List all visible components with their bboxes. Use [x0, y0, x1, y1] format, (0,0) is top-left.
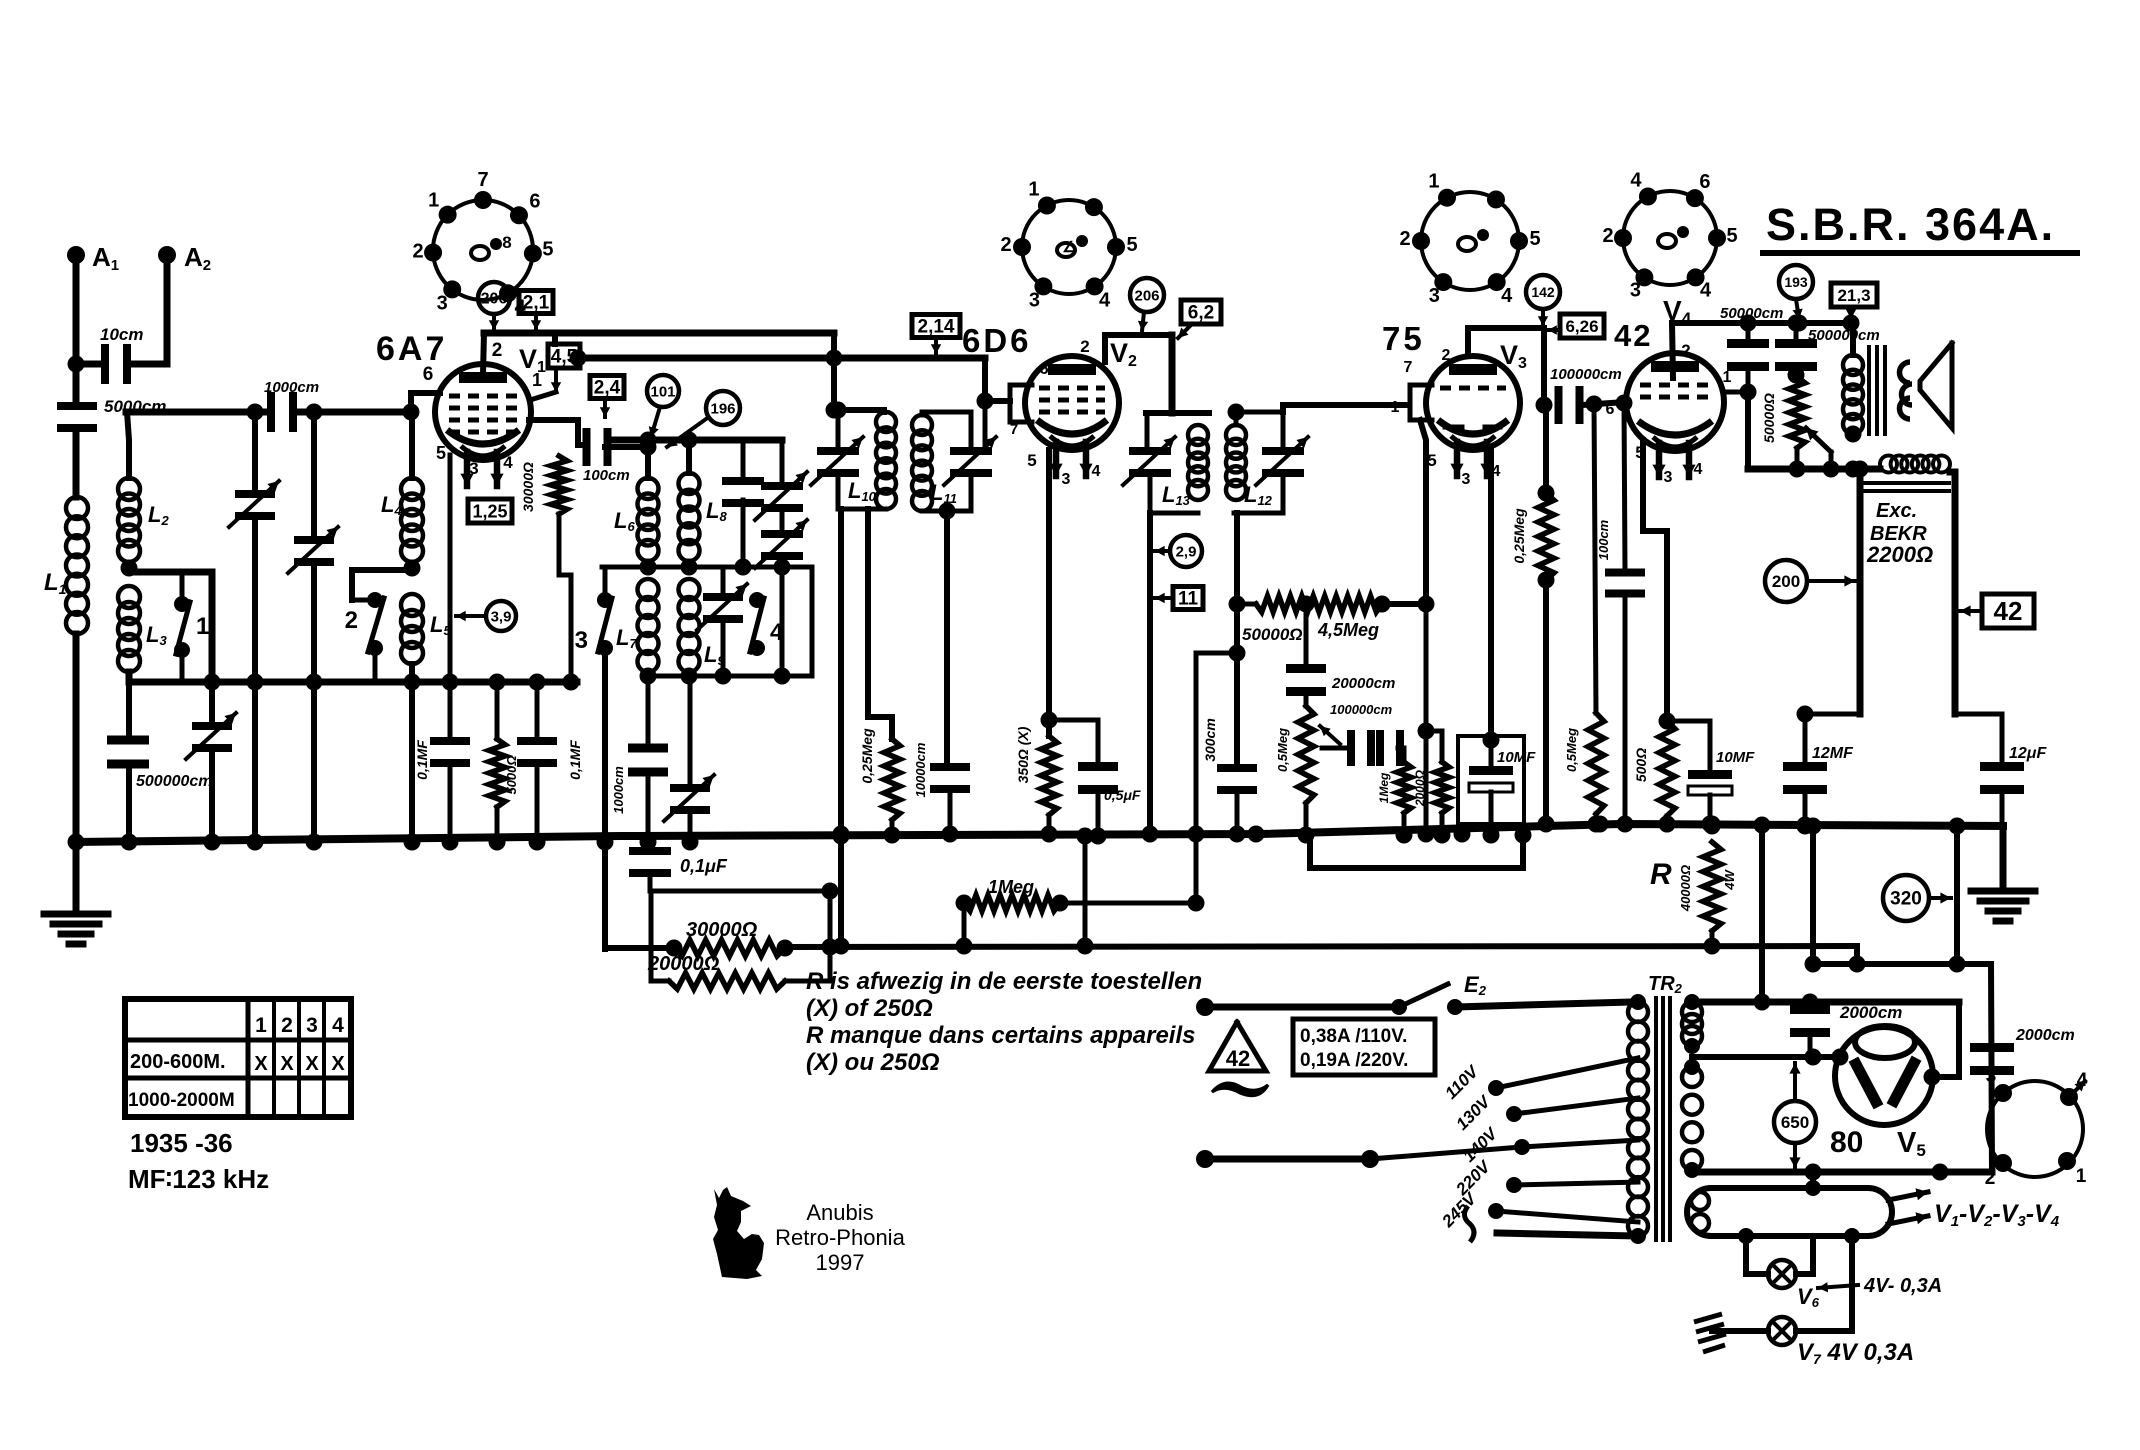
svg-text:75: 75: [1382, 320, 1425, 357]
svg-text:1: 1: [255, 1014, 267, 1037]
wire L3 bottom row: [129, 672, 577, 682]
svg-text:2000cm: 2000cm: [1839, 1003, 1902, 1022]
V2 plate drop to IF2: [1169, 335, 1176, 413]
trimmer capacitor ant 1: [186, 682, 236, 842]
ground symbol right: [1971, 891, 2035, 921]
svg-text:Retro-Phonia: Retro-Phonia: [775, 1225, 905, 1250]
capacitor 2000cm 2: [1970, 964, 2075, 1172]
coil L13: [1162, 425, 1208, 508]
trimmer capacitor tuning 1: [229, 412, 279, 842]
svg-text:5: 5: [436, 443, 446, 463]
wire to 10cm capacitor: [76, 361, 104, 368]
trimmer capacitor IF2 right: [1256, 412, 1308, 513]
V4 pin2 riser: [1672, 323, 1691, 378]
svg-text:100000cm: 100000cm: [1550, 366, 1622, 383]
svg-text:100cm: 100cm: [1596, 519, 1611, 560]
capacitor 0,5mf V2: [1041, 712, 1141, 845]
svg-text:0,25Meg: 0,25Meg: [859, 728, 875, 784]
grid box V3: [1410, 385, 1432, 420]
band table frame: [125, 999, 351, 1117]
main ground bus: [76, 824, 2003, 842]
V3 diode plates: [1445, 425, 1500, 430]
svg-text:1: 1: [1723, 369, 1732, 386]
osc fixed capacitor: [722, 440, 764, 567]
IF1 drop right capacitor 10000cm: [913, 511, 970, 843]
svg-text:0,38A /110V.: 0,38A /110V.: [1300, 1026, 1407, 1047]
node 4,5Meg mid tap: [1298, 596, 1315, 613]
field coil right rail: [1950, 472, 1955, 714]
line y946 right end: [1849, 946, 1866, 973]
resistor 2000 cluster: [1413, 731, 1451, 844]
bottom pin arrows V1: [436, 443, 513, 478]
svg-text:30000Ω: 30000Ω: [520, 462, 536, 512]
transformer core: [1656, 998, 1670, 1240]
V2 grid wire: [985, 398, 1010, 404]
capacitor plate 42: [1727, 323, 1769, 401]
capacitor 0,1MF cath A: [414, 682, 470, 842]
coil L6: [614, 478, 659, 561]
svg-text:3: 3: [1986, 1066, 1997, 1087]
svg-text:4: 4: [770, 619, 784, 646]
resistor 1Meg cluster: [1377, 748, 1413, 844]
voltage circle 193: [1779, 265, 1813, 319]
svg-text:3,9: 3,9: [491, 608, 512, 625]
svg-text:6,2: 6,2: [1188, 303, 1214, 324]
svg-text:2: 2: [281, 1014, 293, 1037]
node A1-cap junction: [68, 356, 85, 373]
node bus tune2: [306, 674, 323, 851]
svg-text:193: 193: [1784, 274, 1808, 290]
node bus middle dots: [833, 816, 1814, 843]
HV top line: [1692, 994, 1959, 1011]
svg-text:3: 3: [306, 1014, 318, 1037]
osc top line: [614, 432, 782, 449]
capacitor 10cm: [100, 325, 143, 384]
svg-text:5: 5: [1027, 451, 1036, 470]
voltage box 2,4: [590, 376, 624, 418]
svg-text:1000cm: 1000cm: [264, 379, 319, 396]
title SBR 364A: [1763, 199, 2077, 253]
primary bottom wire: [1497, 1228, 1646, 1244]
note line 1: [806, 968, 1202, 995]
table row 1000-2000M: [128, 1090, 235, 1111]
voltage taps: [1488, 1058, 1638, 1222]
svg-text:X: X: [280, 1053, 294, 1075]
svg-text:200-600M.: 200-600M.: [130, 1051, 226, 1073]
B+ line y1172: [1692, 1164, 1992, 1181]
antenna terminal A1: [67, 242, 119, 274]
label 500000cm: [1808, 327, 1880, 344]
svg-text:6: 6: [529, 190, 540, 212]
voltage circle 142: [1526, 275, 1560, 326]
riser 1957: [1949, 818, 1966, 973]
label EXC: [1876, 500, 1917, 522]
resistor 5000ohm: [489, 682, 519, 842]
capacitor 12MF 2: [1980, 714, 2047, 826]
voltage box 6,26: [1548, 314, 1604, 338]
svg-text:2: 2: [1985, 1168, 1996, 1189]
svg-text:6: 6: [1606, 401, 1615, 418]
svg-text:0,5μF: 0,5μF: [1104, 787, 1141, 803]
svg-text:2: 2: [1681, 341, 1690, 360]
IF1 right rail: [977, 358, 994, 448]
rectifier socket 4pin: [1985, 1066, 2088, 1189]
svg-text:5: 5: [542, 238, 553, 260]
node bus-A1: [68, 834, 85, 851]
grid line to V3: [1283, 405, 1409, 412]
cathode resistor V1 30000ohm: [520, 456, 571, 682]
coil L9: [679, 579, 726, 672]
speaker horn: [1920, 343, 1952, 428]
heater winding pill: [1687, 1188, 1892, 1236]
svg-text:80: 80: [1830, 1126, 1863, 1159]
resistor 1Meg AVC line: [956, 877, 1197, 912]
B+ top line 6A7: [484, 330, 834, 337]
svg-text:4W: 4W: [1722, 869, 1737, 891]
label V2: [1110, 338, 1137, 370]
label 2200ohm: [1866, 542, 1933, 567]
output transformer core: [1869, 347, 1885, 434]
label V5: [1897, 1127, 1926, 1160]
pin6 wire V1: [403, 364, 441, 421]
node screen-line drop: [570, 350, 587, 367]
wire bus to ground: [73, 842, 80, 914]
svg-text:0,1μF: 0,1μF: [680, 856, 728, 876]
capacitor 2000cm 1: [1790, 1002, 1902, 1057]
svg-text:R is afwezig in de eerste toes: R is afwezig in de eerste toestellen: [806, 968, 1202, 995]
ground symbol left: [44, 914, 108, 944]
capacitor 12MF 1: [1783, 714, 1854, 835]
voltage box 1,25: [468, 499, 512, 523]
svg-text:6A7: 6A7: [376, 330, 447, 368]
fuse rating box: [1293, 1019, 1435, 1075]
capacitor 10MF box: [1458, 736, 1524, 824]
heater pill top tap: [1805, 1164, 1822, 1197]
left rail 12MF junction: [1797, 706, 1861, 723]
label V7 4V 0,3A: [1797, 1339, 1914, 1367]
trimmer capacitor IF1 right: [944, 437, 996, 510]
bottom junction row: [640, 668, 813, 685]
warning triangle 42: [1209, 1022, 1266, 1071]
svg-text:10MF: 10MF: [1716, 749, 1755, 766]
tube socket diagram 6A7: [413, 169, 554, 318]
svg-text:0,25Meg: 0,25Meg: [1511, 508, 1527, 564]
lamp V6 wiring: [1746, 1236, 1768, 1274]
IF2 top line: [1146, 410, 1209, 416]
V4 cathode jog: [1643, 440, 1667, 721]
V4 pin labels: [1606, 401, 1703, 486]
label 6D6: [962, 322, 1032, 359]
svg-text:0,19A /220V.: 0,19A /220V.: [1300, 1050, 1408, 1071]
cluster cap row: [1320, 702, 1393, 748]
tap squiggle: [1464, 1206, 1474, 1242]
svg-text:4,5Meg: 4,5Meg: [1317, 620, 1379, 640]
voltage box 21,3: [1831, 283, 1877, 319]
V2 plate riser: [1105, 335, 1172, 362]
label 50000ohm: [1242, 625, 1303, 644]
label 6A7: [376, 330, 447, 368]
osc trimmer lower: [755, 520, 807, 676]
pin2 riser V1: [483, 333, 502, 374]
capacitor 100000cm pair: [1347, 730, 1404, 766]
label 100000cm coupling: [1550, 366, 1622, 383]
resistor 20000ohm: [647, 891, 830, 989]
warning squiggle: [1212, 1083, 1268, 1096]
svg-text:2: 2: [1442, 347, 1451, 364]
pilot lamp V7: [1768, 1317, 1796, 1345]
svg-text:6D6: 6D6: [962, 322, 1032, 359]
V3 grid drop: [1420, 420, 1426, 604]
coil L3: [118, 586, 167, 672]
svg-text:2: 2: [1602, 225, 1613, 247]
svg-text:1Meg.: 1Meg.: [988, 877, 1039, 897]
svg-text:100000cm: 100000cm: [1330, 702, 1393, 717]
capacitor 10MF cathode: [1659, 713, 1756, 833]
wire 100cm to L6: [605, 439, 657, 479]
voltage circle 650: [1774, 1063, 1816, 1168]
loop bottom: [1310, 827, 1532, 869]
svg-text:0,1MF: 0,1MF: [414, 740, 430, 780]
svg-text:42: 42: [1994, 596, 2023, 626]
svg-text:650: 650: [1781, 1113, 1809, 1132]
svg-text:142: 142: [1531, 284, 1555, 300]
svg-text:1: 1: [1028, 179, 1039, 201]
svg-text:40000Ω: 40000Ω: [1678, 865, 1693, 912]
voltage box 2,1: [519, 291, 553, 331]
tap fan: [1370, 1147, 1522, 1159]
wire L5 to bus: [404, 664, 421, 851]
table header 1234: [255, 1014, 344, 1037]
svg-text:2,1: 2,1: [523, 293, 550, 314]
svg-text:50000Ω: 50000Ω: [1761, 393, 1777, 443]
screen top line 42: [1672, 315, 1860, 332]
plate bottom line: [1748, 461, 1880, 478]
V3 cathode drop: [1483, 450, 1500, 749]
svg-text:4: 4: [1700, 279, 1712, 301]
voltage circle 196: [667, 391, 740, 447]
V4 grid capacitor 100cm: [1596, 403, 1645, 833]
coupling line to V4: [1582, 395, 1633, 413]
IF2 right bottom: [1234, 511, 1283, 516]
AVC drop from L12: [1229, 513, 1246, 765]
cross connect 1085: [1077, 828, 1094, 955]
HV secondary winding: [1682, 994, 1702, 1054]
note line 3: [806, 1022, 1195, 1049]
node L2-L3 junction: [121, 560, 138, 577]
wire cap to L1: [73, 429, 80, 497]
svg-text:4V- 0,3A: 4V- 0,3A: [1863, 1275, 1942, 1297]
heater pill bottom taps: [1738, 1228, 1860, 1244]
mid junction row: [602, 559, 812, 576]
svg-text:X: X: [254, 1053, 268, 1075]
anubis fox logo: [713, 1187, 764, 1279]
node bus osc: [640, 834, 699, 851]
node bus 6A7: [442, 834, 546, 851]
V4 grid leak 0,5Meg: [1564, 404, 1605, 833]
node L6-L7: [640, 559, 657, 576]
svg-text:7: 7: [1010, 421, 1018, 438]
IF1 top left line: [834, 410, 884, 412]
resistor 500ohm cathode: [1633, 721, 1676, 833]
svg-text:1: 1: [428, 190, 439, 212]
svg-text:3: 3: [1062, 471, 1071, 488]
IF1 top right line: [922, 412, 971, 448]
capacitor 20000cm: [1286, 604, 1395, 706]
resistor 50000ohm + 4,5Meg row: [1237, 596, 1435, 613]
pin1 riser V1 with 4,5 box: [530, 333, 580, 400]
wire cap to A2: [128, 255, 167, 364]
node W1 drop1: [247, 404, 264, 421]
AVC junction line: [1196, 645, 1246, 662]
svg-text:7: 7: [1404, 359, 1413, 376]
svg-text:(X) of 250Ω: (X) of 250Ω: [806, 995, 933, 1022]
svg-text:1,25: 1,25: [472, 501, 507, 521]
switch 2: [345, 592, 384, 656]
resistor 0,25Meg plate load: [1511, 405, 1555, 833]
svg-text:8: 8: [502, 233, 511, 252]
svg-text:10000cm: 10000cm: [913, 742, 928, 797]
svg-text:50000cm: 50000cm: [1720, 305, 1783, 322]
AVC line left drop: [956, 903, 973, 955]
svg-text:R manque dans certains apparei: R manque dans certains appareils: [806, 1022, 1195, 1049]
svg-text:2: 2: [492, 340, 503, 361]
grid2 wire V1: [529, 420, 586, 445]
voltage circle 39: [456, 601, 516, 631]
capacitor 1000cm series: [264, 379, 319, 432]
svg-text:2000cm: 2000cm: [2015, 1027, 2075, 1044]
svg-text:500Ω: 500Ω: [1633, 748, 1649, 782]
svg-text:4: 4: [1694, 461, 1703, 478]
rectifier tube 80 V5: [1835, 1026, 1933, 1125]
tube V3 75: [1426, 356, 1520, 476]
svg-text:6: 6: [1039, 359, 1048, 378]
node W1 drop2: [306, 404, 323, 421]
right rail 12MF junction: [1955, 712, 2002, 717]
node bus trim1: [204, 674, 221, 851]
node L8-L9: [681, 559, 698, 576]
note line 4: [806, 1049, 940, 1076]
label 1997: [816, 1250, 865, 1275]
voltage box 2,14: [912, 315, 960, 355]
svg-text:4: 4: [1492, 463, 1501, 480]
svg-text:2: 2: [1080, 337, 1089, 356]
svg-text:2: 2: [345, 607, 358, 634]
bus to ground right: [2000, 826, 2007, 891]
line y946: [605, 946, 1857, 948]
capacitor screen 42: [1775, 323, 1817, 384]
svg-text:1: 1: [1428, 171, 1439, 193]
feedback arrow: [1806, 428, 1831, 469]
label Retro-Phonia: [775, 1225, 905, 1250]
coil L4: [381, 412, 423, 562]
label BEKR: [1870, 523, 1927, 545]
switch 3 stubs: [603, 567, 608, 600]
IF2 drop left: [1142, 513, 1159, 843]
switch 3: [575, 592, 613, 656]
switch 2 stubs: [352, 600, 375, 682]
svg-text:2,4: 2,4: [594, 378, 621, 399]
V3 pin labels: [1391, 347, 1501, 488]
svg-text:2,14: 2,14: [918, 317, 955, 338]
IF2 left bottom: [1150, 511, 1198, 516]
filament line: [1692, 1049, 1849, 1068]
label 1935-36: [130, 1128, 233, 1158]
antenna terminal A2: [158, 242, 211, 274]
voltage circle 200: [1765, 560, 1855, 602]
label 42: [1614, 318, 1652, 353]
svg-text:12MF: 12MF: [1812, 745, 1854, 762]
svg-text:3: 3: [1429, 285, 1440, 307]
ladder right rail: [822, 883, 839, 982]
AVC drop to 1Meg line: [1188, 653, 1205, 912]
svg-text:7: 7: [477, 169, 488, 191]
coil L5: [401, 594, 451, 664]
V3 plate drop: [1536, 328, 1553, 414]
svg-text:MF∶123 kHz: MF∶123 kHz: [128, 1164, 269, 1194]
svg-text:500000cm: 500000cm: [136, 773, 213, 790]
coil L2: [118, 478, 169, 562]
svg-text:11: 11: [1178, 589, 1199, 610]
node W1-L2: [127, 412, 129, 478]
capacitor 500000cm: [107, 682, 213, 842]
IF1 left bottom: [830, 402, 887, 510]
svg-text:206: 206: [1134, 287, 1159, 304]
svg-text:2200Ω: 2200Ω: [1866, 542, 1933, 567]
wire L1 to ground bus: [73, 634, 80, 842]
svg-text:1997: 1997: [816, 1250, 865, 1275]
coil L1: [44, 497, 88, 634]
IF1 drop left: [833, 509, 850, 955]
osc trimmer upper: [755, 440, 807, 528]
switch 2 wiring: [352, 570, 412, 600]
voltage box 42: [1960, 594, 2034, 628]
wire L8 top: [686, 440, 692, 473]
svg-text:(X) ou 250Ω: (X) ou 250Ω: [806, 1049, 940, 1076]
svg-text:1: 1: [1391, 399, 1400, 416]
primary top terminal: [1630, 994, 1646, 1010]
IF2 top right: [1228, 404, 1284, 426]
label TR2: [1648, 973, 1683, 996]
osc trimmer mid: [697, 567, 747, 676]
heater arrows V1-V4: [1888, 1188, 2060, 1229]
field coil top winding: [1880, 456, 1950, 473]
ladder line A: [650, 889, 830, 894]
voltage box 11: [1155, 587, 1203, 610]
svg-text:101: 101: [650, 383, 675, 400]
svg-text:21,3: 21,3: [1837, 286, 1870, 305]
riser bus to HV line: [1759, 826, 1765, 1002]
svg-text:5: 5: [1726, 225, 1737, 247]
resistor 350ohm (X): [1015, 450, 1058, 843]
label V4: [1663, 295, 1692, 328]
voltage circle 101: [647, 375, 679, 437]
switch 4: [749, 592, 784, 656]
capacitor 100000cm coupling: [1555, 386, 1584, 424]
svg-text:S.B.R. 364A.: S.B.R. 364A.: [1766, 199, 2055, 250]
svg-text:1: 1: [196, 613, 209, 640]
osc trimmer bottom: [664, 676, 714, 842]
V3 grid drop to bus: [1418, 604, 1435, 835]
label 50000cm: [1720, 305, 1783, 322]
IF2 left rail: [1145, 413, 1150, 449]
coil L11: [912, 415, 957, 511]
svg-text:4: 4: [1630, 170, 1642, 192]
svg-text:4: 4: [332, 1014, 344, 1037]
capacitor 0,1MF cath B: [517, 682, 583, 842]
wire W1 mid: [293, 409, 412, 416]
tube V1 6A7: [435, 364, 531, 486]
svg-text:1000-2000M: 1000-2000M: [128, 1090, 235, 1111]
